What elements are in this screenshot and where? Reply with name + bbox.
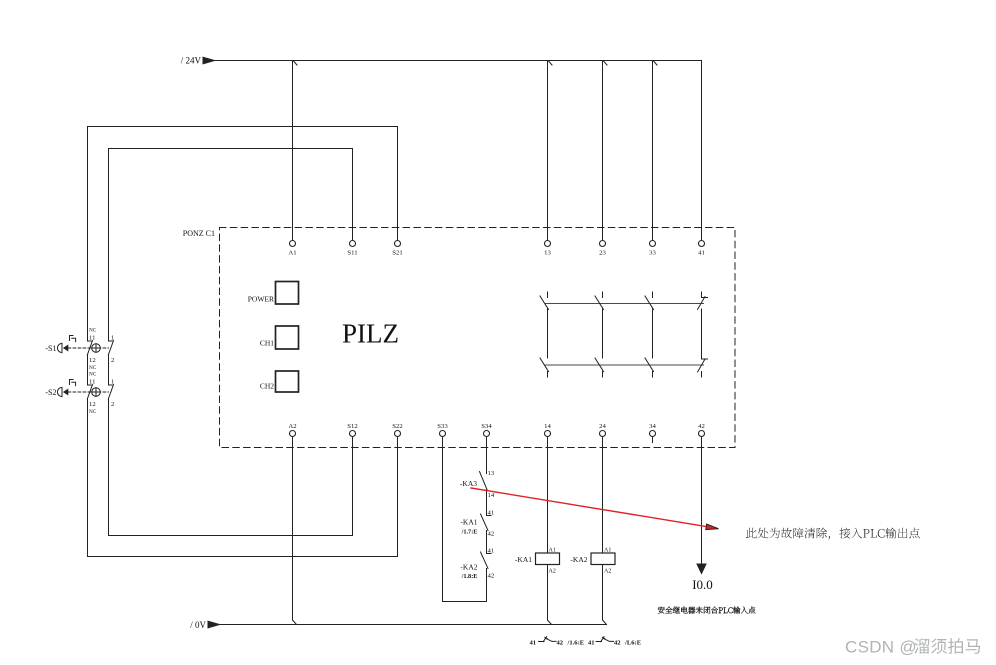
- terminal 41: [698, 241, 705, 257]
- svg-text:11: 11: [89, 379, 95, 386]
- svg-text:A2: A2: [288, 423, 296, 430]
- relay contact -KA2 41/42 (NC) /1.8:E: [481, 552, 492, 602]
- watermark CSDN @溜须拍马: [845, 638, 980, 657]
- internal NO contact 33-34: [645, 292, 654, 377]
- svg-text:1: 1: [111, 379, 114, 386]
- svg-text:41: 41: [488, 510, 495, 517]
- LED indicator POWER: [248, 282, 299, 305]
- svg-text:41: 41: [488, 548, 495, 555]
- wire 24 to KA2 coil: [602, 437, 604, 554]
- svg-text:POWER: POWER: [248, 295, 274, 304]
- caption: fault cleared, connect to PLC output point: [746, 528, 920, 540]
- wire inner loop between S1 and S2 contacts: [108, 355, 110, 385]
- cross-reference KA1 contact 41-42 /1.6:E: [530, 637, 585, 647]
- internal contact linkage bar bottom: [545, 364, 704, 366]
- wire inner loop top (S11 channel): [109, 149, 353, 342]
- svg-text:S21: S21: [392, 250, 402, 257]
- wire junction jog at x=547.5 on 24V rail: [548, 61, 552, 66]
- svg-text:1: 1: [111, 335, 114, 342]
- svg-text:14: 14: [488, 492, 495, 499]
- wire 24V drop to terminal 13: [547, 61, 549, 241]
- svg-text:A2: A2: [604, 569, 611, 575]
- relay contact -KA3 13/14 (NO): [480, 472, 488, 516]
- internal NO contact 23-24: [595, 292, 604, 377]
- svg-text:-KA2: -KA2: [570, 555, 587, 564]
- svg-text:-KA1: -KA1: [460, 518, 477, 527]
- svg-text:-KA1: -KA1: [515, 555, 532, 564]
- svg-text:A1: A1: [604, 548, 611, 554]
- svg-text:12: 12: [89, 401, 96, 408]
- svg-text:A1: A1: [549, 548, 556, 554]
- terminal S21: [392, 241, 402, 257]
- emergency stop button S1: [45, 336, 113, 356]
- svg-text:42: 42: [488, 531, 495, 538]
- terminal 14: [544, 423, 551, 437]
- wire KA1 coil to 0V: [547, 565, 549, 621]
- terminal 23: [599, 241, 606, 257]
- terminal S22: [392, 423, 402, 437]
- S2 contact pin labels: [89, 372, 114, 416]
- svg-text:-S1: -S1: [45, 344, 56, 353]
- internal NO contact 13-14: [540, 292, 549, 377]
- terminal S12: [347, 423, 357, 437]
- svg-text:-KA3: -KA3: [460, 479, 477, 488]
- svg-text:41: 41: [588, 640, 595, 647]
- svg-text:41: 41: [530, 640, 537, 647]
- svg-text:S33: S33: [437, 423, 448, 430]
- svg-text:33: 33: [649, 250, 656, 257]
- svg-text:/ 24V: / 24V: [181, 56, 202, 66]
- svg-text:2: 2: [111, 357, 114, 364]
- annotation red arrow: [471, 488, 719, 530]
- wire 42 to PLC input I0.0: [701, 437, 703, 565]
- emergency stop button S2: [45, 380, 113, 400]
- svg-text:PONZ C1: PONZ C1: [183, 229, 215, 238]
- wire 24V drop to terminal 33: [652, 61, 654, 241]
- svg-text:42: 42: [614, 640, 621, 647]
- wire 14 to KA1 coil: [547, 437, 549, 554]
- relay contact -KA1 41/42 (NC) /1.7:E: [481, 514, 492, 554]
- svg-text:S22: S22: [392, 423, 402, 430]
- svg-text:S12: S12: [347, 423, 357, 430]
- svg-text:NC: NC: [89, 372, 97, 378]
- svg-text:S11: S11: [347, 250, 357, 257]
- svg-text:/ 0V: / 0V: [190, 620, 206, 630]
- svg-text:NC: NC: [89, 409, 97, 415]
- cross-reference KA2 contact 41-42 /L6:E: [588, 637, 642, 647]
- terminal 34: [649, 423, 656, 437]
- svg-text:13: 13: [544, 250, 551, 257]
- wire junction jog at x=292.5 on 24V rail: [293, 61, 297, 66]
- terminal A1: [288, 241, 296, 257]
- wire 24V drop to terminal 41: [701, 61, 703, 241]
- safety relay PONZ C1 dashed outline: [220, 228, 736, 448]
- wire S33 bypass down: [443, 437, 487, 602]
- relay coil -KA1: [515, 548, 560, 575]
- terminal S34: [481, 423, 492, 437]
- svg-text:A2: A2: [549, 569, 556, 575]
- svg-text:CH1: CH1: [260, 339, 274, 348]
- terminal S11: [347, 241, 357, 257]
- svg-text:42: 42: [557, 640, 564, 647]
- svg-text:/1.6:E: /1.6:E: [567, 640, 585, 647]
- wire junction jog at x=602.5 on 24V rail: [603, 61, 607, 66]
- svg-text:42: 42: [698, 423, 705, 430]
- terminal 13: [544, 241, 551, 257]
- svg-text:CSDN @: CSDN @: [845, 638, 917, 657]
- terminal A2: [288, 423, 296, 437]
- terminal 24: [599, 423, 606, 437]
- svg-text:2: 2: [111, 401, 114, 408]
- terminal 33: [649, 241, 656, 257]
- internal NC contact 41-42: [698, 292, 708, 377]
- svg-text:A1: A1: [288, 250, 296, 257]
- svg-text:I0.0: I0.0: [692, 577, 713, 592]
- svg-text:34: 34: [649, 423, 656, 430]
- wire KA2 coil to 0V: [602, 565, 604, 621]
- wire stub below terminal 34: [652, 437, 654, 443]
- svg-text:-S2: -S2: [45, 388, 56, 397]
- svg-text:NC: NC: [89, 328, 97, 334]
- wire 24V drop to terminal A1: [292, 61, 294, 241]
- LED indicator CH2: [260, 371, 299, 392]
- svg-text:NC: NC: [89, 365, 97, 371]
- svg-text:24: 24: [599, 423, 606, 430]
- svg-text:13: 13: [488, 470, 495, 477]
- terminal 42: [698, 423, 705, 437]
- wire 24V drop to terminal 23: [602, 61, 604, 241]
- svg-text:41: 41: [698, 250, 705, 257]
- svg-text:/1.8:E: /1.8:E: [461, 573, 478, 580]
- wire outer loop bottom to S22: [88, 399, 398, 557]
- svg-text:CH2: CH2: [260, 382, 274, 391]
- svg-text:14: 14: [544, 423, 551, 430]
- svg-text:/L6:E: /L6:E: [624, 640, 642, 647]
- terminal S33: [437, 423, 448, 437]
- wire junction jog A2/0V: [293, 620, 297, 625]
- svg-text:S34: S34: [481, 423, 492, 430]
- svg-text:/1.7:E: /1.7:E: [461, 529, 478, 536]
- svg-text:-KA2: -KA2: [460, 563, 477, 572]
- internal contact linkage bar top: [545, 303, 704, 305]
- LED indicator CH1: [260, 326, 299, 349]
- wire inner loop bottom to S12: [109, 399, 353, 536]
- wire junction jog KA2/0V: [603, 620, 607, 625]
- svg-text:12: 12: [89, 357, 96, 364]
- wire junction jog at x=652.5 on 24V rail: [653, 61, 657, 66]
- svg-text:23: 23: [599, 250, 606, 257]
- svg-text:42: 42: [488, 573, 495, 580]
- relay coil -KA2: [570, 548, 615, 575]
- wire outer loop top (S21 channel): [88, 127, 398, 342]
- wire A2 to 0V: [292, 437, 294, 621]
- wire S34 to KA3 contact: [486, 437, 488, 474]
- S1 contact pin labels: [89, 328, 114, 372]
- svg-text:PILZ: PILZ: [342, 319, 399, 349]
- wire junction jog KA1/0V: [548, 620, 552, 625]
- wire outer loop between S1 and S2 contacts: [87, 355, 89, 385]
- svg-text:11: 11: [89, 335, 95, 342]
- caption: safety relay not closed PLC input point: [658, 607, 756, 614]
